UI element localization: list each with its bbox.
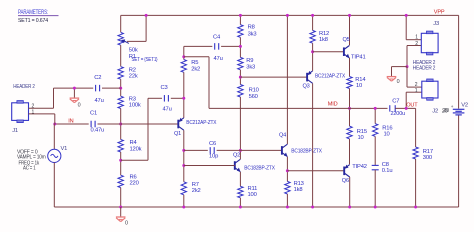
svg-text:10: 10 [356,83,362,89]
svg-text:TIP42: TIP42 [352,164,367,170]
svg-text:Q2: Q2 [233,152,240,158]
svg-text:J1: J1 [12,128,18,134]
svg-text:22k: 22k [129,74,138,80]
svg-text:R16: R16 [382,125,392,131]
svg-text:0: 0 [125,221,128,227]
svg-text:J2: J2 [432,108,438,114]
svg-text:1: 1 [32,109,35,115]
svg-text:2: 2 [415,41,418,47]
svg-text:AC = 1: AC = 1 [23,166,36,172]
svg-text:Q5: Q5 [343,37,350,43]
svg-text:Q4: Q4 [279,132,286,138]
svg-text:47u: 47u [163,106,172,112]
svg-text:100: 100 [248,192,257,198]
svg-text:SET1 = 0.674: SET1 = 0.674 [18,18,49,24]
svg-text:C1: C1 [90,110,97,116]
svg-text:R3: R3 [129,97,136,103]
svg-text:BC212AP-ZTX: BC212AP-ZTX [315,74,345,80]
svg-text:120k: 120k [130,147,142,153]
svg-text:0: 0 [78,102,81,108]
svg-text:C2: C2 [94,75,101,81]
svg-text:IN: IN [68,119,73,125]
svg-text:R8: R8 [248,25,255,31]
svg-text:2k2: 2k2 [191,67,200,73]
svg-text:47u: 47u [214,56,223,62]
svg-text:1: 1 [415,35,418,41]
svg-text:3k3: 3k3 [246,64,255,70]
svg-text:VPP: VPP [434,10,445,16]
svg-text:R9: R9 [246,58,253,64]
svg-text:HEADER 2: HEADER 2 [13,84,35,90]
svg-text:3k3: 3k3 [248,32,257,38]
svg-text:Q3: Q3 [303,84,310,90]
svg-text:560: 560 [249,94,258,100]
svg-text:2200u: 2200u [391,111,406,117]
svg-text:PARAMETERS:: PARAMETERS: [18,9,48,16]
svg-text:100k: 100k [129,103,141,109]
svg-text:BC182BP-ZTX: BC182BP-ZTX [291,149,322,155]
svg-text:TIP41: TIP41 [351,55,366,61]
svg-text:Q6: Q6 [342,178,349,184]
svg-text:R5: R5 [191,60,198,66]
svg-text:HEADER 2: HEADER 2 [413,65,436,71]
svg-text:R10: R10 [249,88,259,94]
svg-text:R12: R12 [319,31,329,37]
svg-text:1k8: 1k8 [319,37,328,43]
svg-text:20: 20 [443,108,449,114]
svg-text:MID: MID [328,101,338,107]
svg-text:220: 220 [130,181,139,187]
svg-text:R17: R17 [423,149,433,155]
svg-text:10: 10 [384,132,390,138]
svg-text:0.1u: 0.1u [382,168,393,174]
svg-text:V2: V2 [461,102,468,108]
svg-text:2k2: 2k2 [192,188,201,194]
svg-text:C7: C7 [392,98,399,104]
svg-text:0: 0 [397,79,400,85]
svg-text:BC212AP-ZTX: BC212AP-ZTX [186,120,216,126]
svg-text:50k: 50k [129,48,138,54]
svg-text:300: 300 [423,155,432,161]
svg-text:C3: C3 [161,85,168,91]
svg-text:SET = {SET1}: SET = {SET1} [132,57,158,63]
svg-text:47u: 47u [95,98,104,104]
svg-text:Q1: Q1 [174,131,181,137]
svg-text:R13: R13 [294,181,304,187]
svg-text:C4: C4 [213,34,221,40]
svg-text:10p: 10p [209,153,218,159]
svg-text:OUT: OUT [406,103,418,109]
svg-text:10: 10 [358,135,364,141]
svg-text:0.47u: 0.47u [91,127,105,133]
svg-text:1: 1 [415,88,418,94]
svg-text:C6: C6 [209,141,216,147]
svg-text:V1: V1 [61,146,68,152]
svg-text:1k8: 1k8 [294,187,303,193]
svg-text:R4: R4 [130,140,138,146]
svg-text:J3: J3 [433,21,439,27]
svg-text:BC182BP-ZTX: BC182BP-ZTX [244,165,275,171]
